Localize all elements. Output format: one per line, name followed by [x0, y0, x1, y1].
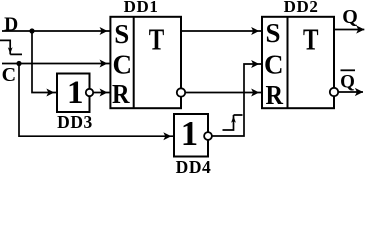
svg-text:R: R — [112, 79, 130, 109]
svg-text:DD1: DD1 — [124, 0, 159, 16]
svg-text:1: 1 — [181, 114, 198, 153]
svg-text:DD4: DD4 — [176, 157, 212, 175]
svg-text:S: S — [114, 19, 129, 49]
svg-text:1: 1 — [67, 75, 84, 111]
svg-text:Q: Q — [340, 72, 355, 93]
svg-text:DD2: DD2 — [284, 0, 319, 16]
svg-text:D: D — [4, 14, 18, 35]
svg-text:T: T — [303, 22, 319, 56]
svg-text:C: C — [264, 49, 284, 79]
svg-text:C: C — [2, 64, 16, 86]
svg-text:DD3: DD3 — [57, 112, 93, 132]
svg-text:C: C — [112, 49, 132, 79]
svg-text:T: T — [149, 22, 165, 56]
svg-text:R: R — [266, 80, 284, 110]
svg-text:Q: Q — [342, 6, 358, 28]
svg-text:S: S — [265, 18, 280, 48]
